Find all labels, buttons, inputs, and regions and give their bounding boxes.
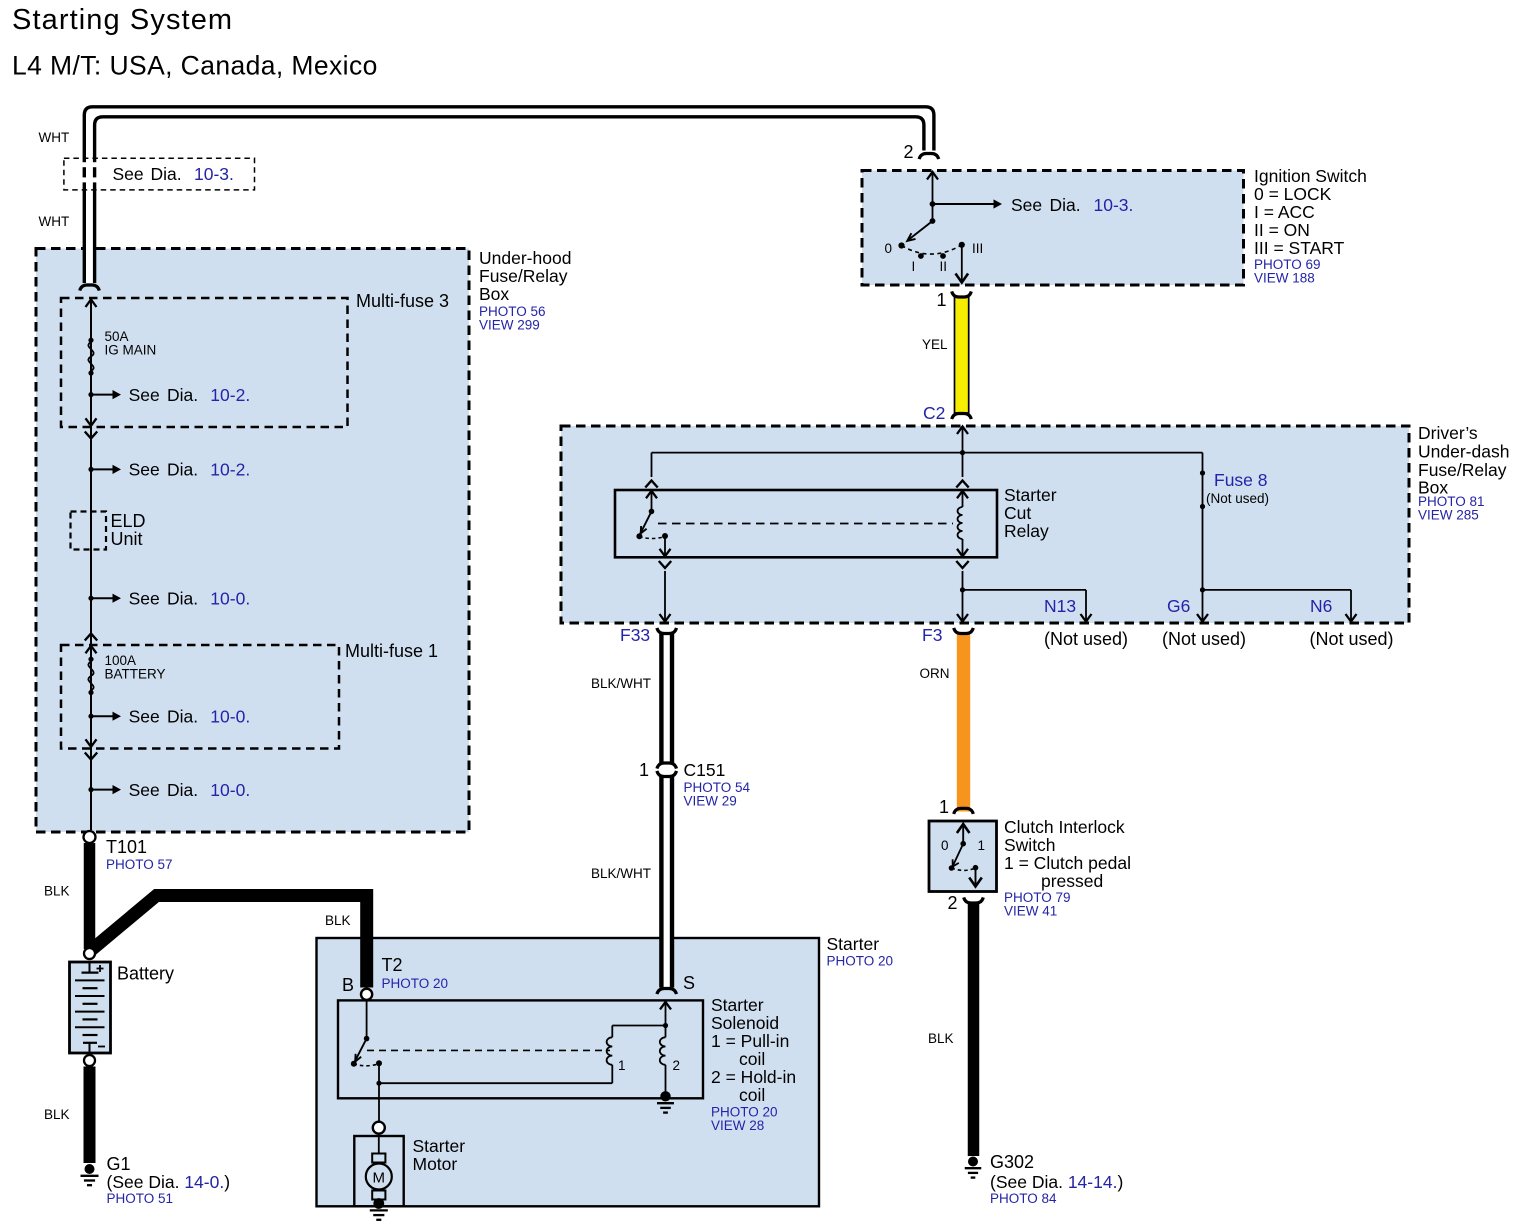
svg-text:0: 0 — [885, 241, 893, 256]
svg-text:Unit: Unit — [111, 529, 143, 549]
svg-text:Dia.: Dia. — [167, 385, 198, 405]
svg-text:Dia.: Dia. — [167, 707, 198, 727]
svg-text:N13: N13 — [1044, 596, 1076, 616]
svg-text:II = ON: II = ON — [1254, 220, 1310, 240]
svg-text:VIEW 299: VIEW 299 — [479, 318, 540, 333]
svg-text:See: See — [1011, 195, 1042, 215]
svg-text:S: S — [683, 973, 695, 993]
svg-text:T2: T2 — [382, 955, 403, 975]
svg-text:Multi-fuse 1: Multi-fuse 1 — [345, 641, 438, 661]
svg-text:Dia.: Dia. — [167, 460, 198, 480]
svg-text:1: 1 — [639, 760, 649, 780]
svg-text:Cut: Cut — [1004, 503, 1031, 523]
svg-text:I: I — [912, 259, 916, 274]
svg-text:See: See — [129, 707, 160, 727]
svg-text:IG MAIN: IG MAIN — [105, 343, 157, 358]
svg-text:Under-dash: Under-dash — [1418, 442, 1509, 462]
svg-text:VIEW 28: VIEW 28 — [711, 1118, 764, 1133]
svg-text:PHOTO 51: PHOTO 51 — [107, 1191, 174, 1206]
svg-text:pressed: pressed — [1041, 871, 1103, 891]
svg-text:Multi-fuse 3: Multi-fuse 3 — [356, 291, 449, 311]
svg-text:2: 2 — [948, 893, 958, 913]
svg-text:T101: T101 — [106, 837, 147, 857]
svg-text:Starter: Starter — [827, 934, 880, 954]
svg-text:VIEW 41: VIEW 41 — [1004, 904, 1057, 919]
svg-text:PHOTO 20: PHOTO 20 — [827, 954, 894, 969]
svg-text:Fuse/Relay: Fuse/Relay — [479, 266, 568, 286]
svg-text:2: 2 — [673, 1058, 681, 1073]
svg-text:1: 1 — [618, 1058, 626, 1073]
svg-text:PHOTO 84: PHOTO 84 — [990, 1191, 1057, 1206]
svg-text:Starter: Starter — [413, 1136, 466, 1156]
svg-text:10-0.: 10-0. — [210, 780, 250, 800]
svg-text:1 = Pull-in: 1 = Pull-in — [711, 1031, 789, 1051]
svg-text:Dia.: Dia. — [167, 780, 198, 800]
svg-text:ELD: ELD — [111, 511, 146, 531]
svg-text:Dia.: Dia. — [151, 164, 182, 184]
svg-text:WHT: WHT — [39, 214, 70, 229]
svg-text:(See Dia. 14-0.): (See Dia. 14-0.) — [107, 1172, 231, 1192]
svg-text:C2: C2 — [923, 403, 945, 423]
svg-text:VIEW 29: VIEW 29 — [684, 794, 737, 809]
svg-text:G6: G6 — [1167, 596, 1190, 616]
svg-text:Clutch Interlock: Clutch Interlock — [1004, 817, 1125, 837]
svg-text:See: See — [129, 385, 160, 405]
svg-text:2: 2 — [904, 142, 914, 162]
svg-text:10-3.: 10-3. — [194, 164, 234, 184]
svg-text:1 = Clutch pedal: 1 = Clutch pedal — [1004, 853, 1131, 873]
svg-text:III = START: III = START — [1254, 238, 1345, 258]
svg-text:10-0.: 10-0. — [210, 707, 250, 727]
svg-text:B: B — [342, 975, 354, 995]
svg-text:BLK: BLK — [325, 913, 351, 928]
svg-text:I = ACC: I = ACC — [1254, 202, 1315, 222]
svg-text:(Not used): (Not used) — [1309, 629, 1393, 649]
svg-text:Driver’s: Driver’s — [1418, 423, 1478, 443]
svg-text:10-2.: 10-2. — [210, 385, 250, 405]
svg-text:See: See — [113, 164, 144, 184]
svg-text:(See Dia. 14-14.): (See Dia. 14-14.) — [990, 1172, 1123, 1192]
svg-text:Battery: Battery — [117, 964, 174, 984]
svg-text:2 = Hold-in: 2 = Hold-in — [711, 1067, 796, 1087]
svg-text:(Not used): (Not used) — [1162, 629, 1246, 649]
svg-text:BLK: BLK — [44, 1107, 70, 1122]
svg-text:10-3.: 10-3. — [1094, 195, 1134, 215]
svg-text:0 = LOCK: 0 = LOCK — [1254, 184, 1332, 204]
svg-text:Starter: Starter — [1004, 485, 1057, 505]
svg-text:Relay: Relay — [1004, 521, 1049, 541]
svg-text:YEL: YEL — [922, 337, 948, 352]
svg-text:PHOTO 57: PHOTO 57 — [106, 857, 173, 872]
svg-text:Ignition Switch: Ignition Switch — [1254, 166, 1367, 186]
svg-text:1: 1 — [939, 797, 949, 817]
svg-text:PHOTO 20: PHOTO 20 — [382, 976, 449, 991]
svg-text:G1: G1 — [107, 1154, 131, 1174]
svg-text:Box: Box — [479, 284, 509, 304]
svg-text:G302: G302 — [990, 1152, 1034, 1172]
svg-text:coil: coil — [739, 1049, 765, 1069]
svg-text:Under-hood: Under-hood — [479, 248, 571, 268]
svg-text:VIEW 285: VIEW 285 — [1418, 508, 1479, 523]
svg-text:F33: F33 — [620, 625, 650, 645]
svg-text:Starting System: Starting System — [12, 4, 233, 36]
svg-text:1: 1 — [937, 290, 947, 310]
svg-text:10-2.: 10-2. — [210, 460, 250, 480]
svg-text:See: See — [129, 589, 160, 609]
svg-text:BATTERY: BATTERY — [105, 667, 166, 682]
svg-text:1: 1 — [978, 838, 986, 853]
svg-text:Motor: Motor — [413, 1154, 458, 1174]
svg-text:BLK: BLK — [44, 884, 70, 899]
svg-text:II: II — [940, 259, 948, 274]
svg-text:Starter: Starter — [711, 995, 764, 1015]
svg-text:C151: C151 — [684, 760, 726, 780]
svg-text:0: 0 — [941, 838, 949, 853]
svg-text:(Not used): (Not used) — [1206, 491, 1269, 506]
svg-text:N6: N6 — [1310, 596, 1332, 616]
svg-text:L4 M/T: USA, Canada, Mexico: L4 M/T: USA, Canada, Mexico — [12, 51, 378, 81]
svg-text:Fuse 8: Fuse 8 — [1214, 470, 1268, 490]
svg-text:F3: F3 — [922, 625, 942, 645]
svg-text:See: See — [129, 460, 160, 480]
svg-text:WHT: WHT — [39, 130, 70, 145]
svg-text:BLK/WHT: BLK/WHT — [591, 866, 651, 881]
svg-text:BLK/WHT: BLK/WHT — [591, 676, 651, 691]
svg-text:M: M — [373, 1169, 386, 1186]
svg-text:coil: coil — [739, 1085, 765, 1105]
svg-text:VIEW 188: VIEW 188 — [1254, 271, 1315, 286]
svg-text:III: III — [972, 241, 983, 256]
svg-text:Dia.: Dia. — [1050, 195, 1081, 215]
svg-text:(Not used): (Not used) — [1044, 629, 1128, 649]
svg-text:BLK: BLK — [928, 1031, 954, 1046]
svg-text:Solenoid: Solenoid — [711, 1013, 779, 1033]
svg-text:10-0.: 10-0. — [210, 589, 250, 609]
svg-text:See: See — [129, 780, 160, 800]
svg-text:Switch: Switch — [1004, 835, 1056, 855]
svg-text:ORN: ORN — [920, 666, 950, 681]
svg-text:Dia.: Dia. — [167, 589, 198, 609]
